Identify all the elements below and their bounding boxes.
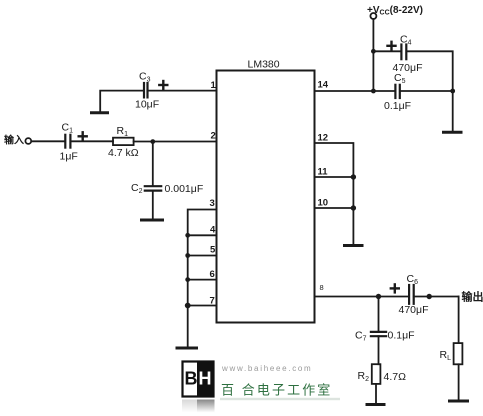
op-amp U1 LM380 body [217, 71, 315, 323]
svg-text:R2: R2 [358, 370, 370, 383]
capacitor C3 [144, 83, 148, 97]
svg-text:C3: C3 [139, 71, 151, 84]
wire input to C1 [31, 140, 64, 142]
svg-text:5: 5 [210, 245, 216, 256]
ground below R2 [367, 403, 384, 406]
ground left rail [177, 347, 197, 350]
ground mini rail pins 10-12 [345, 244, 363, 247]
wire right rail to ground [452, 91, 454, 132]
ground below RL [450, 400, 468, 403]
watermark url www.baiheee.com [221, 364, 312, 373]
wire pin 7 [188, 305, 217, 307]
svg-text:0.1μF: 0.1μF [388, 330, 415, 342]
node dot pin5 rail [185, 253, 190, 258]
wire pin 4 [188, 234, 217, 236]
svg-text:7: 7 [210, 296, 215, 307]
watermark BH logo [183, 362, 214, 397]
wire pin 12 comb to mini rail [315, 143, 354, 245]
wire C6 to output corner [414, 296, 459, 298]
wire pin 8 to C6 [315, 296, 410, 298]
label C6 [407, 273, 419, 286]
value 470μF [399, 304, 429, 316]
node dot pin10 rail [351, 205, 356, 210]
pin 6 [210, 269, 215, 280]
label R1 [117, 125, 129, 138]
pin 11 [318, 167, 329, 178]
wire C4 branch left segment [373, 50, 401, 52]
polarity plus of C3 [159, 81, 167, 89]
label C2 [131, 182, 143, 195]
svg-text:10μF: 10μF [135, 99, 159, 111]
label RL [440, 349, 452, 362]
net label +Vcc(8-22V) [367, 5, 423, 17]
svg-text:RL: RL [440, 349, 452, 362]
svg-text:C1: C1 [62, 122, 74, 135]
label LM380 [248, 59, 280, 71]
svg-text:C4: C4 [400, 34, 412, 47]
svg-text:C2: C2 [131, 182, 143, 195]
wire pin 10 [315, 207, 354, 209]
value 1μF [60, 151, 78, 163]
svg-text:14: 14 [318, 80, 329, 91]
node label 输入 [4, 134, 24, 147]
svg-text:H: H [199, 369, 212, 389]
resistor R1 [113, 138, 134, 145]
value 0.1μF [384, 100, 411, 112]
wire output corner down to RL [458, 297, 460, 344]
svg-text:1μF: 1μF [60, 151, 78, 163]
svg-text:输出: 输出 [462, 290, 483, 304]
svg-text:6: 6 [210, 269, 215, 280]
wire C7 to R2 [378, 336, 380, 364]
svg-text:B: B [185, 369, 198, 389]
watermark 百合电子工作室 [221, 383, 332, 398]
watermark reflection [182, 398, 340, 413]
svg-text:4.7 kΩ: 4.7 kΩ [108, 147, 139, 159]
label C3 [139, 71, 151, 84]
wire C2 to ground [152, 191, 154, 220]
svg-text:2: 2 [211, 131, 216, 142]
wire junction down to C2 [152, 142, 154, 186]
wire pin 6 [188, 279, 217, 281]
ground below C3 branch [92, 111, 108, 114]
node dot pin7 rail [185, 303, 191, 309]
pin 8 [320, 283, 324, 292]
svg-text:12: 12 [318, 133, 329, 144]
wire C4 to right rail corner [406, 51, 452, 91]
node dot right rail C5 junction [450, 89, 455, 94]
svg-text:11: 11 [318, 167, 329, 178]
pin 2 [211, 131, 216, 142]
value 0.001μF [165, 183, 204, 195]
wire pin 3 comb to left rail [188, 210, 217, 348]
label C7 [355, 330, 367, 343]
value 0.1μF [388, 330, 415, 342]
pin 5 [210, 245, 216, 256]
svg-text:LM380: LM380 [248, 59, 280, 71]
capacitor C2 [145, 186, 161, 190]
node dot output wire [427, 294, 432, 299]
polarity plus of C4 [388, 42, 396, 50]
svg-text:输入: 输入 [4, 134, 24, 147]
wire pin 1 to C3 [148, 90, 217, 92]
node +Vcc terminal [370, 13, 376, 19]
value 4.7kΩ [108, 147, 139, 159]
capacitor C6 [409, 285, 414, 304]
capacitor C7 [371, 332, 386, 336]
wire C3 left to ground drop [100, 91, 144, 112]
svg-text:4.7Ω: 4.7Ω [384, 371, 407, 383]
resistor R2 [372, 364, 381, 384]
wire pin 5 [188, 255, 217, 257]
svg-text:百 合电子工作室: 百 合电子工作室 [221, 383, 332, 398]
ground below C2 [142, 219, 163, 222]
polarity plus of C1 [79, 132, 87, 140]
svg-text:C6: C6 [407, 273, 419, 286]
value 10μF [135, 99, 159, 111]
capacitor C1 [65, 135, 70, 148]
capacitor C4 [401, 45, 406, 60]
pin 4 [210, 225, 216, 236]
wire C7 branch down [378, 297, 380, 332]
label C5 [394, 72, 406, 85]
pin 14 [318, 80, 329, 91]
wire pin 11 [315, 176, 354, 178]
pin 7 [210, 296, 215, 307]
pin 12 [318, 133, 329, 144]
node label 输出 [462, 290, 483, 304]
resistor RL [454, 343, 463, 364]
node dot C7 tap [376, 294, 381, 299]
svg-text:10: 10 [318, 198, 329, 209]
node junction C2 tap [150, 139, 155, 144]
wire RL to ground [458, 364, 460, 400]
svg-text:3: 3 [210, 198, 215, 209]
capacitor C5 [395, 85, 399, 98]
wire C1 to R1 [72, 140, 114, 142]
pin 10 [318, 198, 329, 209]
svg-text:C7: C7 [355, 330, 367, 343]
svg-text:0.1μF: 0.1μF [384, 100, 411, 112]
pin 3 [210, 198, 215, 209]
wire C5 to right rail [400, 90, 453, 92]
svg-text:R1: R1 [117, 125, 129, 138]
value 470μF [393, 62, 423, 74]
svg-text:4: 4 [210, 225, 216, 236]
wire R1 to pin 2 [134, 141, 217, 143]
pin 1 [211, 80, 217, 91]
svg-text:+VCC(8-22V): +VCC(8-22V) [367, 5, 423, 17]
label C4 [400, 34, 412, 47]
node dot pin4 rail [185, 233, 190, 238]
node 输入 input terminal [25, 138, 31, 144]
label R2 [358, 370, 370, 383]
node dot pin11 rail [351, 174, 356, 179]
node dot Vcc pin14 junction [371, 89, 376, 94]
svg-text:1: 1 [211, 80, 217, 91]
svg-text:www.baiheee.com: www.baiheee.com [221, 364, 312, 373]
svg-text:8: 8 [320, 283, 324, 292]
svg-text:0.001μF: 0.001μF [165, 183, 204, 195]
ground right rail [444, 131, 462, 134]
wire pin 14 to C5 [315, 90, 396, 92]
node dot pin6 rail [185, 277, 190, 282]
polarity plus of C6 [391, 284, 399, 292]
wire R2 to ground [375, 384, 377, 404]
wire Vcc rail down [372, 19, 374, 92]
node dot C4 tap [371, 49, 376, 54]
value 4.7Ω [384, 371, 407, 383]
label C1 [62, 122, 74, 135]
svg-text:470μF: 470μF [399, 304, 429, 316]
